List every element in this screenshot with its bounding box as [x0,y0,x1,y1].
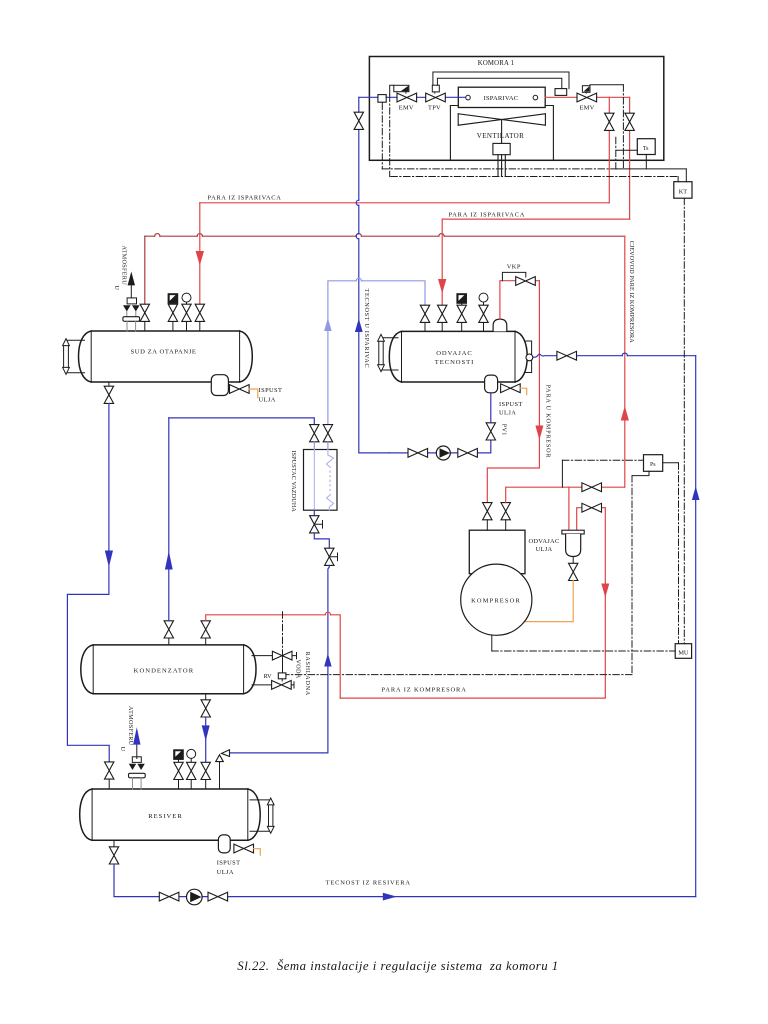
solenoid valve EMV (right) [577,86,597,112]
flow arrow up (riser to odvajac) [692,486,700,500]
sensor box Ts [637,139,655,155]
vessel ODVAJAC TECNOSTI [389,331,527,382]
filter on liquid line [378,95,386,103]
resiver vapour angle valve [216,750,230,789]
KOMORA 1 enclosure box [369,57,663,161]
sud oil drain valve [230,385,250,394]
resiver oil valve [234,844,254,853]
red drop line 2 inside komora [629,97,631,219]
sud top valve (hot gas) [140,304,149,331]
svg-text:ISPUST: ISPUST [217,860,241,867]
valve PV1 [486,423,507,440]
thermostat box KT [674,182,692,199]
TPV capillary loop to bulb [433,72,569,89]
svg-text:PV1: PV1 [500,424,507,436]
svg-text:U: U [113,285,120,290]
riser to odvajac (right side) [695,356,697,897]
odvajac oil valve [501,384,521,393]
TPV bulb on suction line [555,89,567,96]
red drop into odvajac valve [441,219,443,305]
red line dome to VKP [500,281,540,319]
motor starter MU [675,644,691,659]
flow arrow down (para iz kompresora) [601,584,609,598]
svg-text:ISPUST: ISPUST [259,387,283,394]
komora liquid supply riser [356,97,389,453]
Ts sensor wires [617,150,687,182]
odvajac instrument valve 1 [457,294,467,332]
capillary stub [615,137,617,169]
purger down line to resiver [229,565,329,753]
flow arrow up (riser) [355,319,363,333]
resiver top valve (from sud drain) [105,762,114,789]
resiver instrument valve 1 [174,750,184,789]
red drop into sud valve [199,203,201,304]
svg-text:KOMPRESOR: KOMPRESOR [471,597,521,604]
kondenzator liquid outlet valve [201,694,210,717]
oil separator inlet drop [568,487,570,530]
control bus 1 [382,168,616,170]
blue line pot to PV1 [490,393,492,423]
flow arrow down (liquid to resiver) [202,725,210,741]
water inlet valve [272,681,292,690]
solenoid valve EMV (left) [394,85,417,111]
cooling water inlet pipe [252,682,294,688]
resiver instrument valve 2 [187,749,196,789]
purger inlet valve right [323,425,332,442]
flow arrow up (air line) [324,318,332,331]
hot-gas riser right side [624,236,626,487]
svg-text:PARA IZ KOMPRESORA: PARA IZ KOMPRESORA [382,687,467,694]
light blue air line (purger to odvajac) [328,278,425,424]
sud drain valve [104,382,113,403]
resiver oil pot [218,835,230,853]
svg-text:RESIVER: RESIVER [148,813,182,820]
label U ATMOSFERU (resiver) [119,706,134,752]
odvajac level gauge [378,334,398,371]
odvajac dome [493,319,507,331]
vessel RESIVER [80,789,261,840]
flow arrow down (sud drain) [105,551,113,568]
blue liquid feed from resiver [533,353,696,357]
purger inlet valve left [310,425,319,442]
red discharge riser [506,487,625,502]
flow arrow down (para u kompresor) [535,426,543,441]
shut-off valve on drop 1 [605,113,614,130]
label U ATMOSFERU (sud) [113,246,128,291]
sud drain blue line to resiver [67,404,109,762]
purger outlet valve lower [325,548,338,565]
svg-text:PARA IZ ISPARIVACA: PARA IZ ISPARIVACA [208,195,282,202]
bottom valve right [208,892,228,901]
svg-text:ULJA: ULJA [499,410,516,417]
suction valve right [458,449,478,458]
oil separator outlet line [577,508,606,531]
sud instrument valve 1 [168,294,178,331]
svg-text:ULJA: ULJA [536,546,553,553]
bottom valve left [159,892,179,901]
svg-text:ODVAJAC: ODVAJAC [528,538,559,545]
wire from EMV solenoid [390,85,394,95]
svg-text:VENTILATOR: VENTILATOR [477,132,524,140]
blue riser kondenzator to purger line [168,418,170,621]
red header line B (para iz isparivaca to odvajac) [442,218,629,220]
odvajac top valve (air return) [420,305,429,331]
svg-text:ISPUSTAC VAZDUHA: ISPUSTAC VAZDUHA [290,450,297,512]
filter capillary drop [381,103,383,169]
sud level gauge [63,339,85,375]
compressor discharge valve [501,503,510,531]
svg-text:ISPUST: ISPUST [499,401,523,408]
svg-text:PARA U KOMPRESOR: PARA U KOMPRESOR [545,385,552,459]
pressure switch Ps [644,455,663,472]
blue liquid feed line into komora [359,96,466,98]
valve VKP [502,264,535,286]
KT wire down to MU [683,198,685,644]
resiver inlet valve (from kondenzator) [201,762,210,789]
compressor motor wire to MU [492,635,675,651]
fan blades [458,114,545,125]
compressor body block [469,530,525,574]
shut-off valve on drop 2 [625,113,634,130]
transfer pump (resiver) [187,889,203,905]
vessel KONDENZATOR [81,645,256,694]
svg-text:ULJA: ULJA [217,869,234,876]
svg-text:ODVAJAC: ODVAJAC [436,350,473,357]
sud oil pot [211,375,228,396]
red header line A (para iz isparivaca to sud) [200,202,610,204]
svg-text:RV: RV [263,673,272,680]
flow arrow up (kondenzator air) [165,551,173,570]
suction valve left [408,449,428,458]
oil separator drain valve [569,557,578,581]
svg-text:ULJA: ULJA [259,396,276,403]
svg-text:VODA: VODA [294,660,301,679]
svg-text:KT: KT [679,189,688,196]
evaporator ISPARIVAC box [458,87,545,107]
svg-text:TECNOSTI: TECNOSTI [435,359,474,366]
svg-text:EMV: EMV [399,105,414,112]
svg-text:Ts: Ts [643,146,649,152]
feed valve [557,351,577,360]
red suction line out of evaporator [545,96,629,98]
cooling water outlet pipe [252,653,297,659]
orange oil stub (sud) [249,389,258,398]
svg-text:VKP: VKP [507,264,521,271]
red drop line 1 inside komora [608,97,610,203]
resiver drain valve [109,840,118,864]
svg-text:U: U [119,747,126,752]
svg-text:SUD ZA OTAPANJE: SUD ZA OTAPANJE [130,349,196,356]
svg-text:ATMOSFERU: ATMOSFERU [127,706,134,746]
jog between purger valves [314,533,329,548]
flow arrow down (sud) [196,251,204,266]
red line to kondenzator [340,508,605,698]
blue liquid line to resiver [205,717,207,763]
fan motor box [493,120,510,177]
wire from right EMV solenoid [590,85,623,87]
flow arrow up (purger line) [324,653,331,666]
odvajac instrument valve 2 [479,293,488,331]
shut-off valve on riser [354,112,363,129]
vessel SUD ZA OTAPANJE [79,331,253,382]
odvajac oil pot [485,375,498,393]
sud top valve (para) [195,304,204,331]
compressor suction valve [483,503,492,531]
red hot gas entry [206,612,341,698]
compressor circle KOMPRESOR [461,564,532,635]
water outlet valve [272,651,292,660]
water regulating valve RV [263,673,285,680]
air purger feed line from kondenzator [169,418,314,424]
oil separator outlet valve [582,503,602,512]
oil separator ODVAJAC ULJA [528,530,584,556]
odvajac right nozzle circle [526,341,533,373]
Ps wire to water valve RV [286,471,649,674]
svg-text:TPV: TPV [428,105,441,112]
purger outlet valve upper [310,510,323,533]
Ps wire to MU [663,463,679,644]
sud safety vent stack [123,272,140,332]
svg-text:KOMORA 1: KOMORA 1 [478,60,515,67]
thermo valve TPV [426,85,446,111]
sud instrument valve 2 [182,293,191,331]
orange oil stub (resiver) [254,849,261,856]
kondenzator hot gas inlet valve [201,621,210,645]
svg-text:EMV: EMV [579,105,594,112]
liquid line from resiver (bottom) [114,864,696,897]
flow arrow up (hot-gas riser) [621,406,629,421]
odvajac top valve (para B) [438,305,447,331]
kondenzator air valve (to purger) [164,621,173,645]
Ps capillary to discharge line [562,460,643,487]
svg-text:ISPARIVAC: ISPARIVAC [484,95,519,102]
svg-text:TECNOST U ISPARIVAC: TECNOST U ISPARIVAC [363,289,370,369]
resiver safety vent stack [129,727,146,789]
ventilator enclosure [450,106,553,161]
orange oil stub (odvajac) [520,388,527,394]
flow arrow right (tecnost iz resivera) [383,893,397,901]
svg-text:MU: MU [678,649,689,656]
red suction line to compressor [487,281,539,503]
svg-text:KONDENZATOR: KONDENZATOR [134,667,195,674]
resiver level gauge (right) [250,798,274,833]
svg-text:Ps: Ps [650,462,656,468]
orange oil return to compressor [525,581,574,622]
svg-text:PARA IZ ISPARIVACA: PARA IZ ISPARIVACA [449,211,526,218]
circulation pump (odvajac) [436,446,450,460]
svg-text:TECNOST IZ RESIVERA: TECNOST IZ RESIVERA [326,880,411,887]
flow arrow down (odvajac) [438,279,446,294]
discharge bypass valve [582,483,602,492]
hot-gas line C (dark red) [145,234,625,305]
RV control stem [281,612,283,681]
svg-text:RASHLADNA: RASHLADNA [304,652,311,696]
svg-text:ATMOSFERU: ATMOSFERU [121,246,128,286]
svg-text:CJEVOVOD PARE IZ KOMPRESORA: CJEVOVOD PARE IZ KOMPRESORA [628,241,635,344]
pump suction line [389,441,491,453]
label RASHLADNA VODA [294,652,310,696]
svg-text:Sl.22. Šema instalacije i reg: Sl.22. Šema instalacije i regulacije sis… [237,959,558,973]
control bus 2 [391,177,678,182]
air purger box ISPUSTAC VAZDUHA [290,442,337,512]
